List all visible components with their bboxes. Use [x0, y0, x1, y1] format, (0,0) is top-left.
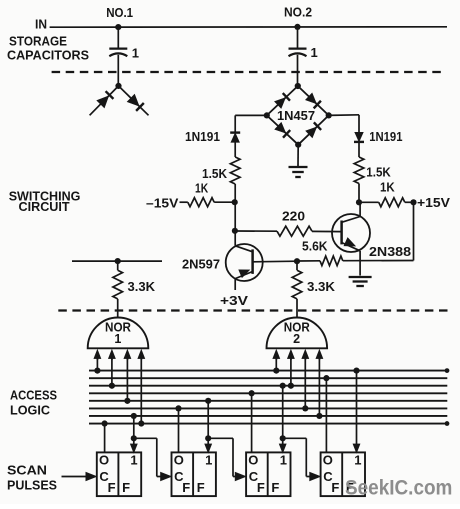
svg-text:1: 1 — [130, 452, 138, 467]
svg-text:1K: 1K — [195, 182, 208, 196]
svg-text:O: O — [323, 453, 334, 468]
svg-text:LOGIC: LOGIC — [10, 403, 51, 418]
svg-text:O: O — [174, 453, 185, 468]
svg-text:1: 1 — [280, 452, 288, 467]
svg-text:ACCESS: ACCESS — [10, 388, 57, 403]
svg-text:220: 220 — [282, 210, 305, 224]
svg-text:3.3K: 3.3K — [128, 280, 156, 294]
svg-text:F: F — [108, 480, 116, 495]
svg-text:–15V: –15V — [146, 196, 179, 211]
svg-text:1.5K: 1.5K — [202, 167, 227, 181]
svg-text:1: 1 — [354, 452, 362, 467]
svg-text:5.6K: 5.6K — [302, 240, 328, 254]
svg-text:O: O — [99, 453, 110, 468]
svg-text:1: 1 — [205, 452, 213, 467]
svg-text:2N388: 2N388 — [369, 244, 411, 259]
svg-text:1: 1 — [132, 46, 140, 61]
svg-text:F: F — [122, 480, 130, 495]
svg-text:IN: IN — [35, 17, 47, 32]
svg-text:1N191: 1N191 — [369, 130, 402, 144]
svg-text:2N597: 2N597 — [182, 257, 220, 272]
svg-text:1: 1 — [114, 332, 121, 346]
svg-text:NO.2: NO.2 — [284, 5, 312, 20]
svg-text:1N191: 1N191 — [185, 130, 220, 144]
svg-text:1N457: 1N457 — [277, 109, 315, 123]
svg-text:CAPACITORS: CAPACITORS — [7, 48, 89, 63]
svg-text:CIRCUIT: CIRCUIT — [19, 199, 70, 214]
svg-text:1K: 1K — [380, 181, 395, 195]
svg-text:F: F — [257, 480, 265, 495]
svg-text:F: F — [331, 480, 339, 495]
svg-text:NO.1: NO.1 — [106, 5, 133, 20]
svg-text:1: 1 — [311, 45, 319, 60]
svg-text:F: F — [182, 480, 190, 495]
svg-text:F: F — [197, 480, 205, 495]
svg-text:1.5K: 1.5K — [366, 166, 391, 180]
svg-text:O: O — [248, 453, 259, 468]
svg-text:+3V: +3V — [220, 293, 248, 308]
svg-text:F: F — [271, 480, 279, 495]
svg-text:STORAGE: STORAGE — [9, 34, 67, 49]
svg-text:SCAN: SCAN — [7, 463, 47, 478]
svg-text:3.3K: 3.3K — [307, 280, 335, 294]
svg-text:SeekIC.com: SeekIC.com — [345, 477, 452, 500]
svg-text:+15V: +15V — [417, 195, 450, 210]
svg-text:PULSES: PULSES — [7, 478, 57, 493]
svg-text:2: 2 — [293, 332, 300, 346]
